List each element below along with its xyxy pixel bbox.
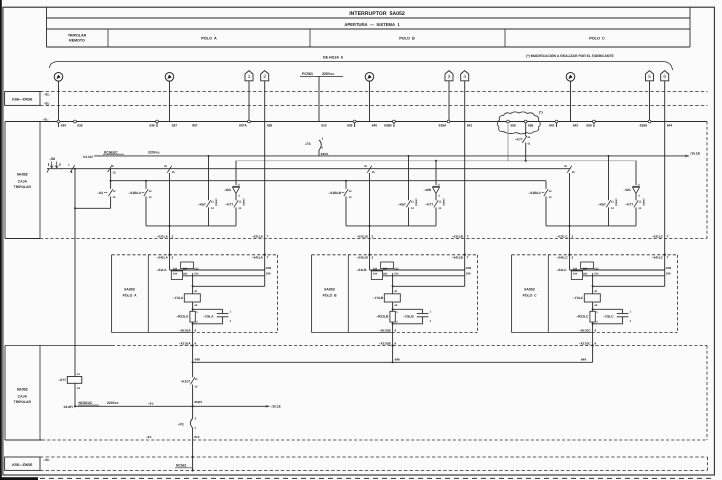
contact 99/29 on circuit wire pole C [564, 165, 575, 174]
terminal -641LC:7 [652, 254, 669, 260]
svg-text:–641LB: –641LB [452, 255, 464, 259]
box label 5A052 POLO C [523, 287, 537, 297]
terminal -631LB:7 [452, 234, 469, 238]
wire coil feed vertical [592, 273, 594, 294]
auxiliary switch -S1LC [556, 262, 599, 280]
svg-text:–Y3LA: –Y3LA [173, 296, 184, 300]
svg-text:–661GB: –661GB [379, 328, 391, 332]
terminal -631LA:7 [252, 234, 269, 238]
svg-text:/10.1E: /10.1E [272, 405, 281, 409]
svg-text:639B: 639B [384, 123, 392, 127]
cell TRIPOLAR REMOTO [68, 34, 87, 43]
svg-text:–641LA: –641LA [157, 255, 169, 259]
wire from flag 6 down (circuit 644) [664, 81, 666, 122]
terminal -641LA:2 [157, 254, 174, 260]
svg-text:PC561: PC561 [302, 72, 313, 76]
svg-text:648: 648 [195, 358, 200, 362]
terminal -X31GC:4 [579, 341, 597, 346]
svg-text:POLO B: POLO B [323, 293, 337, 297]
svg-text:A1: A1 [594, 290, 598, 293]
resistor -R23LC 1/2 [576, 311, 598, 323]
contact 99/29 on circuit wire pole B [364, 165, 375, 174]
svg-text:5A052: 5A052 [17, 172, 28, 176]
svg-text:–K77: –K77 [515, 138, 523, 142]
terminal 643 [573, 123, 579, 127]
svg-text:A2: A2 [77, 387, 81, 390]
flag 5 [646, 71, 654, 81]
auxiliary switch -S1LB [356, 262, 399, 280]
svg-text:NC561/C: NC561/C [79, 401, 93, 405]
wire 613 down to NC561 bus [192, 440, 194, 471]
svg-text:638: 638 [267, 123, 273, 127]
terminal stub 639 [354, 123, 356, 127]
terminal 639A [439, 120, 450, 127]
svg-text:4: 4 [463, 74, 466, 79]
terminal -631LC:7 [652, 234, 669, 238]
svg-text:–K67: –K67 [398, 203, 406, 207]
svg-text:–641LC: –641LC [652, 255, 664, 259]
svg-text:–91:: –91: [146, 435, 152, 439]
svg-text:637: 637 [172, 123, 178, 127]
svg-text:–S1LC: –S1LC [556, 268, 567, 272]
terminal stub 642 [556, 123, 558, 127]
wire 635 branch down [74, 169, 76, 209]
svg-text:/208: /208 [266, 266, 272, 270]
box label 5A052 CAJA TRIPOLAR (lower) [14, 387, 32, 404]
svg-text:DE HOJA 6: DE HOJA 6 [323, 56, 343, 60]
terminal 638 [267, 123, 273, 127]
wire S1LA contact row 2 [183, 275, 265, 277]
terminal -631LB:2 [357, 234, 374, 238]
wire 7-circuit down inside POLO A [264, 255, 266, 286]
svg-text:220Vcc: 220Vcc [322, 72, 334, 76]
wire S1BLB down to bottom rail [345, 197, 347, 226]
wire 7-circuit pole A through box [264, 122, 266, 255]
flag 3 [445, 71, 453, 81]
wire to sheet 10.1E [193, 405, 281, 409]
svg-text:194: 194 [173, 273, 178, 276]
svg-text:CAJA: CAJA [18, 394, 28, 398]
wire from symbol S down (circuit 640) [369, 81, 371, 121]
wire coil feed vertical [192, 273, 194, 294]
modification cloud around terminals 655/656 [497, 112, 540, 134]
svg-text:2: 2 [172, 234, 174, 238]
wire -K77 branch pole B [435, 161, 437, 185]
box 5A052 CAJA TRIPOLAR (lower) [5, 346, 707, 441]
wire terminal 4 down pole C [592, 333, 594, 363]
svg-text:214: 214 [594, 273, 599, 276]
svg-text:–K77: –K77 [425, 203, 433, 207]
junction collector pole B [392, 361, 394, 363]
svg-text:–631LB: –631LB [452, 234, 464, 238]
contact -K77 13/14 pole B [425, 194, 444, 226]
svg-text:–631LC: –631LC [557, 234, 569, 238]
bracket from sheet 6 [50, 62, 673, 71]
wire S1BLC down to bottom rail [545, 197, 547, 226]
wire 7-circuit down inside POLO B [464, 255, 466, 286]
svg-text:–91:: –91: [44, 102, 50, 106]
flag 1 [245, 71, 253, 81]
resistor -R23LA 1/2 [176, 311, 198, 323]
wire pole collector [193, 361, 593, 363]
svg-text:4: 4 [194, 328, 196, 332]
svg-text:–S8: –S8 [49, 157, 55, 161]
svg-text:4: 4 [394, 328, 396, 332]
wire S1LA contact row 1 [170, 269, 265, 271]
wire coil to resistor [392, 302, 394, 311]
wire from symbol W down to terminal 634 [58, 81, 60, 121]
svg-text:TRIPOLAR: TRIPOLAR [68, 34, 87, 38]
diode -WC [624, 184, 641, 198]
svg-text:644: 644 [667, 123, 673, 127]
terminal -661GA:4 [179, 328, 196, 332]
terminal 659 [586, 120, 595, 127]
box 5A052 POLO C [512, 255, 678, 333]
svg-text:POLO C: POLO C [523, 293, 537, 297]
svg-text:04.3C/: 04.3C/ [83, 155, 93, 159]
svg-text:656: 656 [528, 123, 534, 127]
svg-text:–631LA: –631LA [157, 234, 169, 238]
svg-text:–91:: –91: [148, 402, 154, 406]
wire resistor to terminal 4 [392, 322, 394, 333]
junction trip wire pole A [169, 225, 171, 227]
header table INTERRUPTOR 5A052 [47, 7, 691, 47]
wire resistor to terminal 4 [592, 322, 594, 333]
svg-text:636: 636 [149, 123, 155, 127]
terminal 642 [549, 120, 558, 127]
svg-text:–641LA: –641LA [252, 255, 264, 259]
junction S3 loop [74, 207, 76, 209]
wire from flag 2 down (circuit 638) [264, 81, 266, 122]
svg-text:–K67: –K67 [198, 203, 206, 207]
svg-text:NC561: NC561 [176, 464, 187, 468]
svg-text:7: 7 [267, 255, 269, 259]
svg-text:630/1: 630/1 [321, 152, 329, 156]
terminal -661GB:4 [379, 328, 396, 332]
box label 5A052 POLO A [123, 287, 137, 297]
svg-text:220Vcc: 220Vcc [148, 150, 160, 154]
wire terminal 2 into switch S1LB [369, 255, 371, 270]
svg-text:–S1LB: –S1LB [356, 268, 367, 272]
wire S1LC contact row 1 [570, 269, 665, 271]
svg-text:–C5LA: –C5LA [203, 314, 214, 318]
svg-text:A2: A2 [194, 304, 198, 307]
svg-text:–91:: –91: [44, 92, 50, 96]
terminal 639B [384, 120, 395, 127]
svg-text:K56—OK56: K56—OK56 [12, 98, 32, 102]
svg-text:652/3: 652/3 [194, 400, 202, 404]
svg-text:–C5LB: –C5LB [403, 314, 414, 318]
svg-text:–91:: –91: [44, 458, 50, 462]
svg-text:–661GA: –661GA [179, 328, 191, 332]
wire coil feed vertical [392, 273, 394, 294]
junction NC561 pole collector [192, 405, 194, 407]
svg-text:INTERRUPTOR 5A052: INTERRUPTOR 5A052 [349, 11, 405, 17]
wire trip circuit pole C through box [569, 173, 571, 255]
svg-text:7: 7 [667, 234, 669, 238]
contact -K67 13/14 pole A [198, 199, 217, 226]
svg-text:–631LA: –631LA [252, 234, 264, 238]
svg-text:7: 7 [267, 234, 269, 238]
diode -WA [224, 184, 240, 198]
junction rail R4 start [110, 180, 112, 182]
svg-text:–S1BLB: –S1BLB [328, 191, 341, 195]
wire 655 down to rail R2 (gray) [507, 123, 509, 161]
wire coil to resistor [592, 302, 594, 311]
wire cross link to coil Y3LB [393, 285, 465, 287]
terminal 635 [74, 120, 83, 127]
wire S1BLC drop from rail R4 [545, 181, 547, 189]
wire trip circuit pole B through box [369, 173, 371, 255]
wire -K77 branch pole A [235, 161, 237, 185]
svg-text:4: 4 [594, 328, 596, 332]
terminal stub 659 [593, 123, 595, 127]
svg-text:3: 3 [448, 74, 451, 79]
junction collector pole A [192, 361, 194, 363]
wire S1LC contact row 2 [583, 275, 665, 277]
svg-text:–R23LC: –R23LC [576, 314, 589, 318]
wire terminal 4 down pole B [392, 333, 394, 363]
svg-text:–Y3LC: –Y3LC [573, 296, 584, 300]
wire -K67 branch pole C [608, 156, 610, 200]
svg-text:–K77: –K77 [625, 203, 633, 207]
svg-text:659A: 659A [640, 123, 648, 127]
wire S3 loop bottom [75, 207, 111, 209]
wire terminal 2 into switch S1LC [569, 255, 571, 270]
svg-text:639A: 639A [439, 123, 447, 127]
terminal stub 639B [393, 123, 395, 127]
svg-text:610: 610 [321, 123, 327, 127]
svg-text:7: 7 [667, 255, 669, 259]
svg-text:APERTURA — SISTEMA 1: APERTURA — SISTEMA 1 [344, 22, 400, 27]
svg-text:283: 283 [383, 273, 388, 276]
terminal stub 634 [58, 123, 60, 127]
svg-text:–X31GB: –X31GB [379, 341, 392, 345]
pushbutton -S8 tripolar trip [47, 157, 60, 173]
svg-text:–S1LA: –S1LA [156, 268, 167, 272]
box 5A052 CAJA TRIPOLAR (upper) [5, 122, 707, 239]
terminal 634 [57, 120, 66, 127]
label PC561 220Vcc (top) [300, 72, 343, 76]
dashed corner lower-right [706, 439, 708, 441]
svg-text:642: 642 [549, 123, 555, 127]
svg-text:A1: A1 [77, 373, 81, 376]
wire from flag 5 down (circuit 659A) [649, 81, 651, 122]
svg-text:(38B3): (38B3) [614, 199, 617, 206]
svg-text:(*) MODIFICACIÓN A REALIZAR PO: (*) MODIFICACIÓN A REALIZAR POR EL FABRI… [526, 54, 614, 58]
wire S1BLB drop from rail R4 [345, 181, 347, 189]
svg-text:(38B3): (38B3) [414, 199, 417, 206]
wire from flag 3 down (circuit 639A) [448, 81, 450, 122]
svg-text:–R23LB: –R23LB [376, 314, 389, 318]
trip coil -K77 A1/A2 (lower) [58, 373, 82, 390]
wire PC561 down (circuit 610) [318, 76, 320, 121]
svg-text:–F3: –F3 [178, 423, 184, 427]
trip coil -Y3LB A1/A2 [373, 290, 400, 307]
junction rail R2 / cloud wire [525, 160, 527, 162]
svg-text:2: 2 [372, 255, 374, 259]
svg-text:–641LC: –641LC [557, 255, 569, 259]
contact -K107 13/14 [180, 362, 198, 406]
wire from flag 1 down (circuit 807A) [248, 81, 250, 122]
svg-text:–641LB: –641LB [357, 255, 369, 259]
contact -S1BLC 13/14 [528, 189, 552, 199]
contact -K67 13/14 pole B [398, 199, 417, 226]
terminal 639 [347, 120, 356, 127]
svg-text:/10.1B: /10.1B [691, 152, 701, 156]
svg-text:613: 613 [194, 435, 199, 439]
svg-text:(*): (*) [539, 111, 543, 115]
wire from symbol R down (circuit 637) [169, 81, 171, 121]
source symbol R [165, 73, 174, 82]
svg-text:5A052: 5A052 [17, 387, 28, 391]
svg-text:655: 655 [511, 123, 517, 127]
terminal 637 [172, 123, 178, 127]
contact 99/29 on circuit wire pole A [164, 165, 175, 174]
svg-text:/208: /208 [666, 266, 672, 270]
svg-text:–S3: –S3 [97, 191, 103, 195]
wire -K77 branch pole C [635, 161, 637, 185]
svg-text:220Vcc: 220Vcc [107, 401, 119, 405]
wire rail R1 PC561/C 220Vcc [94, 154, 689, 157]
svg-text:2: 2 [572, 234, 574, 238]
svg-text:–K77: –K77 [225, 203, 233, 207]
wire S1BLA down to bottom rail [145, 197, 147, 226]
svg-text:04.8F/: 04.8F/ [64, 405, 73, 409]
contact -K77 13/14 pole C [625, 194, 644, 226]
source symbol W (pole A trip wire) [54, 73, 63, 82]
svg-text:643: 643 [573, 123, 579, 127]
terminal 807 [192, 123, 198, 127]
svg-text:–91:: –91: [43, 117, 49, 121]
svg-text:635: 635 [77, 123, 83, 127]
svg-text:–C5LC: –C5LC [603, 314, 614, 318]
svg-text:4: 4 [394, 341, 396, 345]
svg-text:–Y3LB: –Y3LB [373, 296, 384, 300]
resistor -R23LB 1/2 [376, 311, 398, 323]
flag 6 [661, 71, 669, 81]
svg-text:–X31GC: –X31GC [579, 341, 592, 345]
contact 6/10 on rail R3 [108, 164, 116, 174]
svg-text:(38B3): (38B3) [214, 199, 217, 206]
svg-text:CAJA: CAJA [18, 179, 28, 183]
wire S1BLA drop from rail R4 [145, 181, 147, 189]
terminal -641LB:2 [357, 254, 374, 260]
diode -WB [424, 184, 441, 198]
wire resistor to terminal 4 [192, 322, 194, 333]
svg-text:A2: A2 [394, 304, 398, 307]
wire rail R2 (modification feed) [236, 160, 637, 162]
svg-text:TRIPOLAR: TRIPOLAR [14, 185, 32, 189]
svg-text:–631LB: –631LB [357, 234, 369, 238]
wire -K67 branch pole B [408, 156, 410, 200]
wire rail NC561/C 220Vcc [75, 405, 193, 407]
svg-text:TRIPOLAR: TRIPOLAR [14, 400, 32, 404]
svg-text:A2: A2 [594, 304, 598, 307]
junction NC561 K77 coil [74, 405, 76, 407]
svg-text:–R23LA: –R23LA [176, 314, 189, 318]
wire S1LB contact row 2 [383, 275, 465, 277]
junction trip wire pole C [569, 225, 571, 227]
wire K77 coil to NC561 rail [74, 383, 76, 406]
svg-text:/208: /208 [466, 266, 472, 270]
svg-text:–WA: –WA [224, 188, 232, 192]
svg-text:A1: A1 [194, 290, 198, 293]
terminal -661GC:4 [579, 328, 596, 332]
svg-text:(38B3): (38B3) [442, 199, 445, 206]
wire 7-circuit pole B through box [464, 122, 466, 255]
svg-text:10: 10 [113, 170, 117, 174]
wire bottom rail pole B [346, 225, 436, 227]
svg-text:2: 2 [172, 255, 174, 259]
wire coil to resistor [192, 302, 194, 311]
svg-text:5A052: 5A052 [324, 287, 335, 291]
terminal 641 [467, 123, 473, 127]
capacitor -C5LC 1/2 [593, 309, 632, 324]
capacitor -C5LB 1/2 [393, 309, 432, 324]
capacitor -C5LA 1/2 [193, 309, 232, 324]
svg-text:–661GC: –661GC [579, 328, 591, 332]
svg-text:A1: A1 [394, 290, 398, 293]
contact -S1BLA 13/14 [128, 189, 152, 199]
wire trip circuit pole A through box [169, 173, 171, 255]
terminal -X31GB:4 [379, 341, 397, 346]
svg-text:1: 1 [248, 74, 251, 79]
terminal 610 [321, 123, 327, 127]
wire rail R4 blocking chain [111, 180, 546, 182]
trip coil -Y3LC A1/A2 [573, 290, 600, 307]
svg-text:POLO B: POLO B [399, 37, 415, 41]
terminal 655 [507, 120, 516, 127]
terminal -641LB:7 [452, 254, 469, 260]
wire rail R3 trip command [47, 168, 571, 170]
svg-text:–WC: –WC [624, 188, 632, 192]
wire from symbol T down (circuit 643) [570, 81, 572, 121]
svg-text:4: 4 [594, 341, 596, 345]
terminal stub 636 [156, 123, 158, 127]
wire terminal 4 down pole A [192, 333, 194, 363]
svg-text:214: 214 [394, 273, 399, 276]
svg-text:194: 194 [573, 273, 578, 276]
svg-text:7: 7 [467, 255, 469, 259]
svg-text:–631LC: –631LC [652, 234, 664, 238]
terminal 807A [239, 120, 250, 127]
terminal -641LA:7 [252, 254, 269, 260]
svg-text:–WB: –WB [424, 188, 432, 192]
contact -S3 13/14 [97, 189, 116, 208]
junction trip wire pole B [369, 225, 371, 227]
wire -K67 branch pole A [208, 156, 210, 200]
svg-text:640: 640 [372, 123, 378, 127]
svg-text:(38B3): (38B3) [642, 199, 645, 206]
svg-text:641: 641 [467, 123, 473, 127]
svg-text:–K67: –K67 [598, 203, 606, 207]
svg-text:644: 644 [581, 358, 586, 362]
source symbol S [365, 73, 374, 82]
flag 2 [261, 71, 269, 81]
fuse -F3 (lower) pins 2/1 [178, 406, 197, 439]
terminal -631LC:2 [557, 234, 574, 238]
svg-text:209: 209 [266, 272, 271, 276]
box label 5A052 POLO B [323, 287, 337, 297]
svg-text:–S1BLC: –S1BLC [528, 191, 541, 195]
wire S3 branch vertical [110, 169, 112, 189]
wire bottom rail pole A [146, 225, 236, 227]
contact -S1BLB 13/14 [328, 189, 352, 199]
svg-text:2: 2 [372, 234, 374, 238]
svg-text:4: 4 [194, 341, 196, 345]
svg-text:209: 209 [666, 272, 671, 276]
